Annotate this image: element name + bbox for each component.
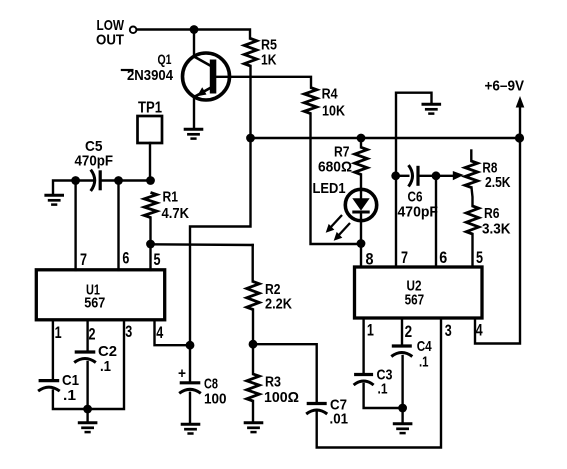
wire: R5 to node A <box>249 66 251 138</box>
resistor R4 <box>304 88 317 114</box>
capacitor C1 <box>39 379 60 382</box>
wire: main rail <box>251 137 520 139</box>
svg-text:567: 567 <box>405 292 425 309</box>
svg-text:470pF: 470pF <box>398 204 439 221</box>
svg-text:+: + <box>178 365 186 382</box>
junction: U1 pin 6 node <box>114 176 123 185</box>
wire: V+ rail down to U2 pin 4 <box>475 138 520 344</box>
IC U2 567 <box>355 267 483 318</box>
wire: node down to U1 pin 7 <box>74 181 76 271</box>
supply arrow <box>519 105 521 138</box>
junction: V+ node on rail <box>515 133 524 142</box>
wire: C2 to ground node <box>86 362 88 409</box>
capacitor C7 <box>307 402 327 405</box>
wire: Q1 base to R4 <box>216 77 311 88</box>
junction: C6 right / pin 6 / wiper <box>432 171 441 180</box>
svg-text:7: 7 <box>401 248 408 267</box>
wire: C5 to TP1 node <box>100 179 150 181</box>
resistor R7 <box>360 138 362 147</box>
svg-text:Q1: Q1 <box>158 52 172 67</box>
junction: R2/R3/C7 node <box>249 340 258 349</box>
resistor R1 <box>144 193 157 218</box>
wire: U1 pin 2 to C2 <box>86 320 88 352</box>
svg-text:R6: R6 <box>484 205 500 222</box>
capacitor C2 <box>75 350 96 353</box>
junction: output node <box>190 25 199 34</box>
test point TP1 <box>138 116 163 143</box>
svg-text:2.5K: 2.5K <box>485 174 511 191</box>
svg-text:3: 3 <box>445 321 452 340</box>
svg-text:.01: .01 <box>330 411 349 428</box>
wire: U2 pin 3 down/left to C7 <box>317 318 441 448</box>
ground (U2 bypass) <box>401 408 403 424</box>
svg-text:2N3904: 2N3904 <box>127 67 174 84</box>
transistor Q1 <box>183 53 230 100</box>
wire with arrow: R8 wiper <box>436 175 454 177</box>
resistor R3 <box>252 344 254 374</box>
svg-text:2.2K: 2.2K <box>265 296 292 313</box>
wire: C8 to ground <box>189 393 191 424</box>
svg-text:7: 7 <box>80 250 87 269</box>
svg-text:567: 567 <box>84 294 105 311</box>
svg-text:5: 5 <box>476 248 483 267</box>
svg-text:1: 1 <box>55 323 62 342</box>
wire: C4 to ground node <box>401 356 403 408</box>
capacitor C3 <box>354 373 373 376</box>
svg-text:2: 2 <box>89 325 96 344</box>
wire: node down to C8 <box>189 345 191 382</box>
wire: U1 pin 3 to ground node <box>88 320 124 409</box>
svg-text:8: 8 <box>366 250 374 269</box>
junction: LED cathode / U2 pin 8 node <box>357 239 366 248</box>
svg-text:.1: .1 <box>100 358 111 375</box>
svg-text:TP1: TP1 <box>138 100 162 117</box>
ground (C8) <box>181 424 201 433</box>
wire: terminal to R5 top <box>137 30 250 39</box>
ground (U1 bypass) <box>86 409 88 423</box>
svg-text:470pF: 470pF <box>75 153 114 170</box>
svg-text:C4: C4 <box>417 338 433 355</box>
svg-text:4.7K: 4.7K <box>162 205 190 222</box>
junction: U1 pin 5 node <box>146 240 155 249</box>
svg-text:3: 3 <box>125 322 132 341</box>
svg-text:R3: R3 <box>265 374 281 391</box>
ground (Q1 emitter) <box>184 129 204 138</box>
resistor R6 <box>472 188 473 207</box>
wire: node down to U1 pin 6 <box>117 181 119 271</box>
svg-text:.1: .1 <box>378 381 388 398</box>
junction: C6 left / pin 7 <box>391 171 400 180</box>
wire: C1 to ground node <box>53 391 88 409</box>
wire: node down to U1 pin 5 <box>149 244 151 270</box>
capacitor C5 <box>91 170 95 191</box>
wire: U1 pin 4 to C8 node <box>155 320 191 345</box>
wire: C3 to ground node <box>364 384 403 408</box>
junction: node A <box>246 134 255 143</box>
junction: R7 node on rail <box>357 134 366 143</box>
svg-text:R1: R1 <box>163 189 179 206</box>
wire: R4 to LED cathode node <box>311 114 362 245</box>
svg-text:+6–9V: +6–9V <box>485 78 525 95</box>
wire: node A down-left to C8 column <box>190 138 251 345</box>
capacitor C8 (electrolytic, +) <box>180 381 201 384</box>
svg-text:1: 1 <box>367 321 374 340</box>
svg-text:OUT: OUT <box>96 32 124 49</box>
wire: node to Q1 collector <box>193 30 195 57</box>
wire: C7 up/left to R2-R3 node <box>253 344 317 403</box>
svg-text:.1: .1 <box>63 387 76 404</box>
wire: input ground to C5 <box>53 181 93 196</box>
svg-text:5: 5 <box>154 250 161 269</box>
junction: TP1 / R1 node <box>146 176 155 185</box>
wire: node to U2 pin 8 <box>360 244 362 268</box>
svg-text:6: 6 <box>439 248 447 267</box>
svg-text:LED1: LED1 <box>313 180 346 197</box>
wire: U1 pin 1 to C1 <box>52 320 54 381</box>
capacitor C4 <box>392 344 412 347</box>
resistor R5 <box>244 39 257 67</box>
svg-text:2: 2 <box>405 322 413 341</box>
wire: Q1 emitter to ground <box>193 97 195 129</box>
svg-text:R4: R4 <box>322 86 339 103</box>
LED LED1 <box>326 189 377 243</box>
wire: R6 to U2 pin 5 <box>471 234 473 267</box>
svg-text:3.3K: 3.3K <box>482 221 511 238</box>
ground (input, left of C5) <box>44 195 64 204</box>
ground (U2 pin 7, top right) <box>422 104 442 113</box>
svg-text:4: 4 <box>476 321 483 340</box>
capacitor C6 <box>396 175 409 177</box>
output terminal (open circle) <box>130 27 137 34</box>
svg-text:100: 100 <box>204 391 227 408</box>
wire: node down to U2 pin 6 <box>435 176 437 267</box>
svg-text:100Ω: 100Ω <box>264 389 299 406</box>
junction: U2 bypass ground node <box>398 404 407 413</box>
svg-text:6: 6 <box>122 248 129 267</box>
potentiometer R8 <box>470 151 472 162</box>
svg-text:10K: 10K <box>322 103 345 120</box>
svg-text:680Ω: 680Ω <box>318 159 352 176</box>
IC U1 567 <box>36 270 164 320</box>
wire: U2 pin 1 to C3 <box>362 318 364 375</box>
svg-text:.1: .1 <box>419 353 429 370</box>
svg-text:4: 4 <box>156 323 163 342</box>
junction: C8 node <box>186 341 195 350</box>
svg-text:1K: 1K <box>261 52 277 69</box>
junction: U1 bypass ground node <box>83 405 92 414</box>
junction: U1 pin 7 node <box>71 176 80 185</box>
wire: U1 pin 5 node to R2 <box>151 243 253 246</box>
wire: U2 pin 7 up to ground <box>396 93 432 267</box>
wire: U2 pin 2 to C4 <box>401 318 403 346</box>
resistor R2 <box>251 245 253 282</box>
ground (R3) <box>244 423 264 432</box>
